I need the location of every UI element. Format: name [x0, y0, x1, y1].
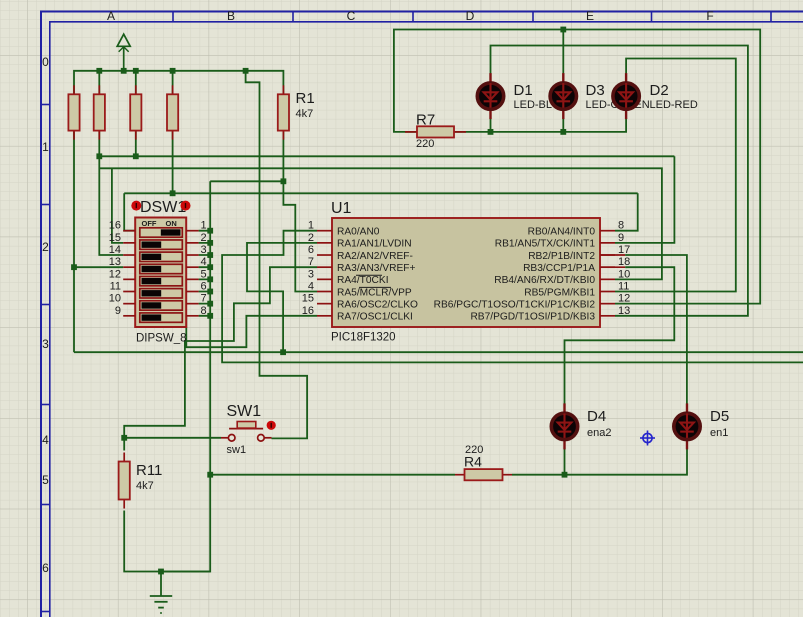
svg-text:RB6/PGC/T1OSO/T1CKI/P1C/KBI2: RB6/PGC/T1OSO/T1CKI/P1C/KBI2 — [434, 299, 596, 310]
svg-text:8: 8 — [618, 220, 624, 232]
junction dots R4 rail — [207, 472, 567, 478]
svg-text:13: 13 — [618, 305, 630, 317]
svg-text:18: 18 — [618, 256, 630, 268]
svg-text:RA1/AN1/LVDIN: RA1/AN1/LVDIN — [337, 239, 412, 250]
svg-text:RB4/AN6/RX/DT/KBI0: RB4/AN6/RX/DT/KBI0 — [494, 275, 595, 286]
ground symbol — [150, 572, 172, 614]
power symbol (+V arrow) — [117, 34, 130, 71]
svg-text:1: 1 — [42, 140, 49, 154]
svg-text:3: 3 — [308, 268, 314, 280]
wire: U1 pin 17 to D5 top — [600, 255, 687, 404]
svg-text:10: 10 — [618, 268, 630, 280]
svg-text:9: 9 — [618, 232, 624, 244]
svg-text:10: 10 — [109, 293, 121, 305]
svg-text:16: 16 — [109, 220, 121, 232]
resistor R1 4k7 — [278, 85, 289, 139]
wire: R7 output rail y=131.9 to LED bottoms — [455, 119, 626, 132]
svg-text:6: 6 — [201, 281, 207, 293]
junction dots on W1 — [96, 153, 138, 159]
wire: D3 top lead — [562, 30, 564, 74]
svg-text:D5: D5 — [710, 408, 729, 425]
svg-text:5: 5 — [42, 473, 49, 487]
svg-text:C: C — [347, 9, 356, 23]
svg-text:F: F — [706, 9, 713, 23]
svg-text:PIC18F1320: PIC18F1320 — [331, 332, 396, 344]
svg-text:D: D — [466, 9, 475, 23]
svg-text:DSW1: DSW1 — [140, 199, 186, 216]
svg-text:RB2/P1B/INT2: RB2/P1B/INT2 — [528, 251, 595, 262]
junction dot R1/bus rail — [281, 178, 287, 184]
svg-text:15: 15 — [302, 293, 314, 305]
svg-text:8: 8 — [201, 305, 207, 317]
U1 pin names — [337, 227, 595, 323]
LED D1 LED-BLUE — [514, 82, 568, 111]
blue origin marker — [640, 431, 655, 446]
svg-text:D4: D4 — [587, 408, 606, 425]
junction dot W3 / resistor col4 — [170, 190, 176, 196]
svg-text:RA6/OSC2/CLKO: RA6/OSC2/CLKO — [337, 299, 418, 310]
svg-text:ON: ON — [166, 219, 177, 228]
wire: U1 pin 11 to D2 top rail — [615, 59, 736, 292]
svg-text:R1: R1 — [296, 90, 315, 107]
svg-text:D3: D3 — [586, 82, 605, 99]
wire: SW1 left terminal to R11 junction — [124, 437, 221, 439]
svg-text:16: 16 — [302, 305, 314, 317]
svg-text:13: 13 — [109, 256, 121, 268]
svg-text:15: 15 — [109, 232, 121, 244]
svg-text:220: 220 — [416, 138, 434, 150]
LED D5 en1 — [674, 403, 700, 449]
junction dot D3 top — [560, 27, 566, 33]
wire: R11 bottom to ground rail — [124, 511, 210, 572]
wire: LED driver rail y=474.7 with R4 — [210, 449, 687, 475]
ruler column letters — [107, 9, 714, 23]
svg-text:3: 3 — [42, 337, 49, 351]
svg-text:12: 12 — [618, 293, 630, 305]
svg-text:4: 4 — [42, 433, 49, 447]
svg-text:4k7: 4k7 — [136, 480, 154, 492]
svg-text:3: 3 — [201, 244, 207, 256]
svg-text:R4: R4 — [464, 454, 482, 470]
svg-text:11: 11 — [110, 281, 121, 293]
svg-text:R11: R11 — [136, 462, 162, 479]
svg-text:RB7/PGD/T1OSI/P1D/KBI3: RB7/PGD/T1OSI/P1D/KBI3 — [470, 312, 595, 323]
junction dot ground rail — [158, 569, 164, 575]
svg-text:OFF: OFF — [142, 219, 157, 228]
svg-text:RA5/MCLR/VPP: RA5/MCLR/VPP — [337, 287, 412, 298]
wire: U1 pin 13 to D1 top — [491, 46, 748, 316]
svg-text:RB1/AN5/TX/CK/INT1: RB1/AN5/TX/CK/INT1 — [495, 239, 596, 250]
wire W1: RB1 net horizontal y=156.3 to U1 pin 9 — [99, 156, 674, 243]
svg-text:1: 1 — [201, 220, 207, 232]
resistor pull-up 2 — [94, 85, 105, 139]
svg-text:6: 6 — [42, 561, 49, 575]
svg-text:0: 0 — [42, 55, 49, 69]
svg-text:U1: U1 — [331, 200, 352, 217]
U1 pin numbers — [302, 220, 631, 317]
svg-text:RA4/T0CKI: RA4/T0CKI — [337, 275, 389, 286]
DSW1 value label — [136, 333, 187, 345]
wire: D1 bottom lead — [490, 119, 492, 132]
svg-text:RA2/AN2/VREF-: RA2/AN2/VREF- — [337, 251, 413, 262]
svg-text:A: A — [107, 9, 115, 23]
wire: pull-up resistor column 2 down to DSW pin 14 — [99, 71, 123, 255]
wire: U1 pin 18 to D4 top — [565, 267, 675, 404]
LED D4 ena2 — [551, 403, 577, 449]
wire: DSW right pin stub links to bus — [199, 231, 211, 316]
svg-text:RB0/AN4/INT0: RB0/AN4/INT0 — [528, 227, 596, 238]
wire: R11 top lead — [123, 438, 125, 451]
wire: R1 to bus rail y=181.3 — [210, 180, 283, 182]
resistor R11 4k7 — [119, 453, 130, 509]
svg-text:RA0/AN0: RA0/AN0 — [337, 227, 380, 238]
resistor pull-up 1 — [68, 85, 79, 139]
svg-text:RA7/OSC1/CLKI: RA7/OSC1/CLKI — [337, 312, 413, 323]
wire: DSW common bus vertical x=210.2 — [161, 181, 210, 571]
wire: pull-up resistor column 1 down to row 13 branch and bus rail — [74, 131, 123, 353]
svg-text:RA3/AN3/VREF+: RA3/AN3/VREF+ — [337, 263, 415, 274]
svg-text:7: 7 — [308, 256, 314, 268]
wire: U1 pin 1 RA0 link down to row 255 and Va rail — [222, 231, 803, 363]
junction dots DSW bus — [207, 228, 213, 319]
svg-text:7: 7 — [201, 293, 207, 305]
resistor pull-up 3 — [130, 85, 141, 139]
junction dot pin2 net / rail y=352.2 — [280, 349, 286, 355]
resistor R4 220 — [455, 444, 512, 480]
wire: U1 pin 7 RA3 net to SW1/R11 junction — [124, 267, 317, 438]
junction dot SW1/R11/RA3 node — [121, 435, 127, 441]
svg-text:1: 1 — [308, 220, 314, 232]
junction dots LED bottom rail — [488, 129, 567, 135]
svg-text:2: 2 — [201, 232, 207, 244]
microcontroller U1 PIC18F1320 chip body — [317, 200, 615, 344]
push button SW1 — [221, 403, 276, 456]
svg-text:en1: en1 — [710, 427, 728, 439]
DSW1 pin numbers — [109, 220, 207, 317]
svg-text:4k7: 4k7 — [296, 108, 314, 120]
svg-text:12: 12 — [109, 268, 121, 280]
svg-text:D1: D1 — [514, 82, 533, 99]
wire: D3 bottom lead — [562, 119, 564, 132]
svg-text:B: B — [227, 9, 235, 23]
svg-text:6: 6 — [308, 244, 314, 256]
svg-text:R7: R7 — [416, 112, 435, 129]
wire: +V top rail — [74, 71, 283, 95]
svg-text:9: 9 — [115, 305, 121, 317]
DIP switch DSW1 DIPSW_8 — [123, 199, 198, 327]
svg-text:14: 14 — [109, 244, 121, 256]
svg-text:17: 17 — [618, 244, 630, 256]
wire W3: RB0 net y=193.3 to U1 pin 8, DSW pin 16 drop — [124, 193, 638, 230]
wire: U1 pin 12 to D3 rail and R7 — [394, 30, 760, 304]
junction dot resistor col1 / DSW pin 13 — [71, 264, 77, 270]
svg-text:DIPSW_8: DIPSW_8 — [136, 333, 187, 345]
svg-text:SW1: SW1 — [227, 403, 262, 420]
wire: D4 bottom lead — [564, 449, 566, 475]
LED D3 LED-GREEN — [586, 82, 650, 111]
junction dots on +V rail — [96, 68, 248, 74]
svg-text:RB3/CCP1/P1A: RB3/CCP1/P1A — [523, 263, 595, 274]
svg-text:sw1: sw1 — [227, 444, 247, 456]
wire: pull-up resistor column 3 down to W1 — [135, 71, 137, 157]
svg-text:RB5/PGM/KBI1: RB5/PGM/KBI1 — [524, 287, 595, 298]
wire W2: RB4 net y=168.3 to U1 pin 10, with DSW pin 15 drop — [100, 168, 662, 279]
wire: R1 bottom jog to U1 pin 1 row and pin 4 (MCLR) — [283, 131, 317, 292]
svg-text:LED-RED: LED-RED — [650, 99, 698, 111]
svg-text:2: 2 — [308, 232, 314, 244]
resistor pull-up 4 — [167, 85, 178, 139]
wire: pull-up resistor column 4 down to W3 — [172, 71, 174, 194]
svg-text:2: 2 — [42, 240, 49, 254]
wire: U1 pin 16 RA7 link to DSW pin8 stub — [186, 316, 317, 347]
svg-text:4: 4 — [308, 281, 314, 293]
svg-text:5: 5 — [201, 268, 207, 280]
svg-text:ena2: ena2 — [587, 427, 611, 439]
svg-text:D2: D2 — [650, 82, 669, 99]
wire: SW1 power feed from +V rail jog down Vc — [246, 71, 308, 439]
svg-text:4: 4 — [201, 256, 207, 268]
wire: U1 pin 2 RA1 net via Vb to eastbound rail y=352.2 — [74, 243, 803, 352]
ruler row numbers — [42, 55, 49, 575]
svg-text:11: 11 — [618, 281, 629, 293]
resistor R7 220 — [405, 112, 466, 151]
svg-text:E: E — [586, 9, 594, 23]
LED D2 LED-RED — [650, 82, 698, 111]
